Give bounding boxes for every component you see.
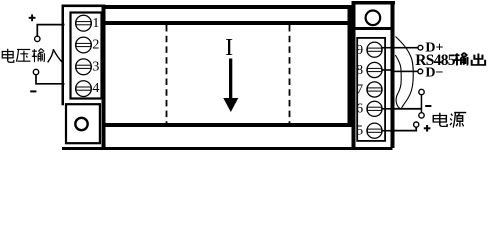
terminal screw 7 — [367, 82, 382, 97]
glyph dian (electric) — [2, 49, 14, 63]
main transducer body outline — [102, 5, 352, 127]
power minus wire from terminal 6 — [392, 108, 422, 110]
svg-text:5: 5 — [356, 124, 363, 139]
device base line — [62, 147, 393, 150]
dashed partition line (left) — [166, 25, 168, 123]
svg-text:9: 9 — [356, 43, 363, 58]
left mounting-foot box — [66, 104, 100, 143]
voltage input plus sign — [29, 14, 36, 21]
terminal 9 wire stub — [382, 47, 392, 49]
D+ wire from terminal 9 — [392, 47, 418, 49]
right terminal block housing — [352, 1, 396, 148]
plus input terminal circle — [35, 36, 40, 41]
glyph shu (transport) — [32, 49, 45, 63]
glyph ya (pressure) — [16, 49, 30, 61]
power minus sign — [425, 105, 431, 107]
svg-text:8: 8 — [356, 63, 363, 78]
glyph shu (transport, bold) of RS485 output label — [454, 53, 485, 66]
terminal screw 3 — [76, 59, 92, 75]
twisted cable curve inner — [395, 55, 401, 109]
svg-text:1: 1 — [92, 16, 99, 31]
terminal screw 6 — [367, 101, 382, 116]
body top strip divider line — [105, 21, 348, 25]
right mounting hole — [366, 10, 381, 25]
svg-text:2: 2 — [92, 38, 99, 53]
glyph chu (out, bold) — [472, 54, 485, 65]
power minus terminal circle — [419, 113, 424, 118]
terminal screw 1 — [76, 15, 92, 31]
wire from - terminal to terminal 4 — [36, 75, 65, 84]
svg-text:3: 3 — [92, 59, 99, 74]
terminal 8 wire stub — [382, 69, 392, 71]
terminal 6 wire stub — [382, 108, 392, 110]
minus input terminal circle — [33, 69, 38, 74]
glyph ru (input) — [48, 49, 62, 62]
terminal screw 4 — [76, 81, 92, 97]
svg-text:7: 7 — [356, 82, 363, 97]
left mounting hole — [75, 118, 87, 130]
terminal screw 9 — [367, 42, 382, 57]
current direction arrow — [223, 59, 238, 113]
power plus sign — [424, 125, 431, 132]
left terminal strip inner frame — [71, 13, 102, 99]
svg-text:4: 4 — [92, 81, 99, 96]
D- wire from terminal 8 — [392, 71, 418, 73]
glyph dian (electric) — [433, 113, 447, 127]
glyph yuan (source) — [450, 113, 466, 128]
terminal screw 5 — [367, 123, 382, 138]
right terminal strip inner frame — [357, 38, 385, 141]
svg-text:I: I — [225, 35, 233, 61]
terminal 5 wire stub — [382, 130, 392, 132]
svg-text:D−: D− — [425, 65, 443, 80]
D+ terminal circle — [418, 45, 423, 50]
terminal screw 8 — [367, 62, 382, 77]
dashed partition line (right) — [289, 25, 291, 123]
left terminal block housing — [62, 5, 106, 149]
power minus stub vertical — [421, 95, 423, 114]
power plus wire from terminal 5 — [392, 127, 416, 131]
power label 电源 — [433, 113, 466, 128]
power plus terminal circle — [414, 122, 419, 127]
D- terminal circle — [418, 69, 423, 74]
svg-text:6: 6 — [356, 102, 363, 117]
voltage input minus sign — [30, 90, 36, 92]
twisted cable curve outer — [396, 37, 414, 109]
wire from + terminal to terminal 1 — [37, 25, 64, 37]
terminal screw 2 — [76, 37, 92, 53]
shield terminal circle — [419, 89, 424, 94]
voltage input label 电压输入 — [2, 49, 62, 63]
